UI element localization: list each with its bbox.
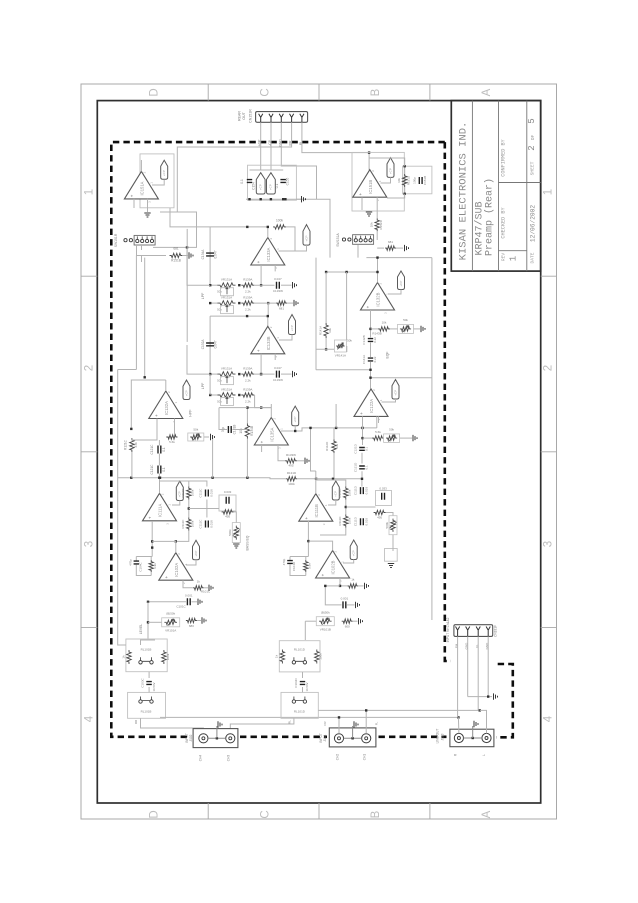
ground bbox=[414, 328, 421, 330]
wire bbox=[362, 416, 364, 445]
op-amp IC111A bbox=[143, 493, 177, 525]
wire bbox=[365, 710, 367, 733]
wire bbox=[148, 672, 150, 678]
svg-text:10-50V: 10-50V bbox=[305, 682, 309, 691]
svg-text:CH3: CH3 bbox=[226, 755, 230, 762]
svg-text:R112D: R112D bbox=[325, 441, 329, 451]
wire bbox=[279, 335, 292, 341]
resistor R111D 100k (b) bbox=[344, 515, 348, 528]
wire bbox=[467, 636, 469, 696]
svg-text:R121C: R121C bbox=[124, 439, 128, 450]
relay block B (right) bbox=[281, 692, 318, 718]
svg-text:B: B bbox=[370, 88, 382, 96]
resistor 600 bbox=[342, 619, 353, 623]
resistor R111W 495 bbox=[374, 510, 386, 514]
svg-text:10-50V: 10-50V bbox=[152, 682, 156, 691]
svg-text:R134B: R134B bbox=[250, 426, 254, 436]
svg-text:C132A: C132A bbox=[201, 339, 205, 350]
wire bbox=[219, 408, 222, 430]
wire bbox=[118, 369, 137, 371]
svg-text:C141A: C141A bbox=[362, 355, 366, 364]
resistor 680 bbox=[186, 618, 197, 622]
svg-text:0.018: 0.018 bbox=[210, 489, 214, 497]
svg-text:INPUT for Ch1&2: INPUT for Ch1&2 bbox=[446, 617, 450, 642]
wire bbox=[285, 227, 295, 251]
ground bbox=[396, 247, 403, 249]
svg-text:C103C: C103C bbox=[141, 678, 145, 688]
capacitor C111C 0.018 (a) bbox=[206, 490, 209, 497]
wire bbox=[186, 560, 196, 565]
svg-text:VR101A: VR101A bbox=[165, 629, 176, 633]
wire bbox=[131, 452, 133, 478]
capacitor C142B 0.22 bbox=[368, 339, 373, 342]
svg-text:1: 1 bbox=[543, 189, 555, 195]
wire bbox=[187, 345, 210, 374]
svg-text:+: + bbox=[321, 573, 326, 576]
svg-text:470p: 470p bbox=[128, 559, 132, 566]
jack J101 pin FL bbox=[362, 734, 371, 743]
wire bbox=[328, 500, 336, 505]
svg-text:C: C bbox=[259, 810, 271, 818]
wire bbox=[160, 481, 189, 487]
svg-text:DATE: DATE bbox=[530, 252, 536, 263]
op-amp IC133A bbox=[251, 238, 285, 270]
svg-text:A: A bbox=[481, 88, 493, 96]
trimmer VR141A 50k bbox=[325, 338, 327, 349]
wire bbox=[141, 640, 156, 645]
svg-text:50k: 50k bbox=[193, 428, 198, 432]
wire bbox=[315, 258, 317, 370]
capacitor C155 (0.1) bbox=[280, 180, 286, 183]
resistor R139 2.2k bbox=[241, 393, 254, 397]
svg-text:0.018: 0.018 bbox=[210, 520, 214, 528]
svg-text:IC151A: IC151A bbox=[139, 181, 144, 195]
svg-text:0.001: 0.001 bbox=[185, 594, 193, 598]
svg-text:IC111A: IC111A bbox=[158, 504, 163, 518]
jack J183 R bbox=[454, 733, 463, 742]
svg-text:50k: 50k bbox=[217, 400, 222, 404]
svg-text:C111C: C111C bbox=[198, 519, 202, 529]
svg-text:33k: 33k bbox=[134, 442, 138, 448]
svg-text:+CP: +CP bbox=[269, 184, 273, 190]
capacitor C133B bbox=[289, 315, 296, 335]
svg-text:EQF: EQF bbox=[386, 352, 390, 359]
wire bbox=[281, 122, 316, 199]
wire bbox=[281, 428, 302, 431]
svg-text:LPF: LPF bbox=[201, 292, 205, 299]
wire bbox=[346, 272, 348, 340]
wire bbox=[170, 208, 247, 227]
svg-text:+: + bbox=[366, 305, 371, 308]
svg-text:0.1: 0.1 bbox=[162, 467, 166, 472]
op-amp IC151A bbox=[140, 154, 174, 208]
svg-text:R143B: R143B bbox=[372, 332, 381, 336]
svg-text:R151B: R151B bbox=[171, 259, 181, 263]
capacitor C153B bbox=[387, 158, 394, 178]
svg-text:D: D bbox=[149, 810, 161, 818]
svg-text:0.047: 0.047 bbox=[274, 366, 282, 370]
pin 3 bbox=[279, 114, 283, 123]
wire bbox=[147, 199, 149, 212]
resistor 681 bbox=[377, 247, 384, 249]
svg-text:150k: 150k bbox=[347, 517, 351, 524]
trim box bbox=[385, 549, 398, 562]
op-amp IC132B bbox=[361, 283, 395, 315]
svg-text:KISAN ELECTRONICS IND.: KISAN ELECTRONICS IND. bbox=[458, 122, 470, 261]
wire bbox=[151, 521, 153, 557]
svg-text:R139A: R139A bbox=[243, 296, 252, 300]
resistor R139 2.2k bbox=[241, 283, 254, 287]
wire bbox=[316, 480, 346, 487]
svg-text:L: L bbox=[482, 754, 486, 756]
svg-text:100k: 100k bbox=[190, 520, 194, 527]
wire bus to line out bbox=[160, 716, 458, 718]
relay RL101B contacts bbox=[139, 697, 153, 704]
svg-text:0.047: 0.047 bbox=[213, 250, 217, 258]
resistor R112D 33k bbox=[332, 439, 336, 453]
svg-text:+CP: +CP bbox=[184, 390, 188, 396]
capacitor C132A cp bbox=[183, 380, 190, 400]
svg-text:33k: 33k bbox=[335, 443, 339, 448]
svg-text:+: + bbox=[359, 412, 364, 415]
wire bbox=[250, 169, 284, 171]
svg-text:100k: 100k bbox=[166, 653, 170, 660]
svg-text:C104D: C104D bbox=[292, 561, 296, 571]
switch SW151R bbox=[124, 235, 155, 245]
capacitor C111A cp bbox=[176, 481, 183, 501]
title block bbox=[451, 101, 540, 272]
svg-text:2.2k: 2.2k bbox=[245, 400, 251, 404]
pin 4 bbox=[486, 627, 490, 637]
svg-text:IC102B: IC102B bbox=[331, 560, 336, 574]
pin 1 bbox=[259, 114, 263, 123]
svg-text:VR131A: VR131A bbox=[221, 388, 232, 392]
capacitor C132A 0.047 bbox=[209, 316, 211, 374]
wire bbox=[183, 580, 193, 588]
resistor R102C 100k bbox=[162, 650, 166, 664]
wire bbox=[338, 717, 340, 733]
svg-text:CN181F: CN181F bbox=[494, 625, 498, 637]
wire bbox=[361, 453, 363, 464]
svg-text:IC132B: IC132B bbox=[376, 292, 381, 306]
svg-text:SHEET: SHEET bbox=[530, 161, 536, 175]
svg-text:J101: J101 bbox=[323, 734, 327, 741]
capacitor C102D 0.001 bbox=[325, 586, 341, 605]
capacitor C121D 0.1 (b) bbox=[359, 466, 365, 469]
resistor R121W bbox=[167, 435, 178, 439]
svg-text:1: 1 bbox=[84, 189, 96, 195]
svg-text:10k: 10k bbox=[397, 178, 401, 183]
svg-text:C142B: C142B bbox=[362, 335, 366, 344]
wire bbox=[311, 428, 316, 471]
svg-text:C121D: C121D bbox=[354, 462, 358, 472]
svg-text:R139A: R139A bbox=[243, 278, 252, 282]
wire bbox=[246, 198, 302, 200]
svg-text:100k: 100k bbox=[190, 489, 194, 496]
resistor R111D 100k (a) bbox=[344, 487, 348, 500]
svg-text:+CP: +CP bbox=[290, 325, 294, 331]
wire bbox=[487, 636, 489, 696]
svg-text:681: 681 bbox=[388, 240, 393, 244]
trimmer VR131 50k bbox=[210, 373, 218, 375]
border frame bbox=[81, 84, 557, 819]
wire bbox=[279, 245, 307, 251]
svg-text:2: 2 bbox=[84, 365, 96, 371]
svg-text:0.1: 0.1 bbox=[240, 179, 244, 184]
svg-text:0.22: 0.22 bbox=[373, 337, 377, 343]
svg-text:495: 495 bbox=[377, 516, 382, 520]
relay RL101B bbox=[139, 657, 153, 664]
svg-text:LPF: LPF bbox=[201, 382, 205, 389]
svg-text:R151D: R151D bbox=[406, 175, 410, 185]
wire bbox=[131, 419, 157, 441]
svg-text:VR141A: VR141A bbox=[335, 354, 346, 358]
wire bbox=[141, 718, 204, 733]
wire bbox=[159, 478, 161, 494]
svg-text:50k: 50k bbox=[217, 379, 222, 383]
ground bbox=[183, 255, 188, 257]
svg-text:RL101D: RL101D bbox=[294, 710, 306, 714]
svg-text:R152D: R152D bbox=[379, 219, 383, 229]
svg-text:3.9k: 3.9k bbox=[307, 563, 311, 569]
trimmer VR121B 50k bbox=[383, 437, 385, 439]
wire bbox=[274, 265, 276, 271]
svg-text:CONFIRMED BY: CONFIRMED BY bbox=[501, 138, 507, 176]
wire bbox=[140, 160, 142, 171]
wire bbox=[370, 310, 372, 338]
capacitor C121C 0.1 (a) bbox=[158, 446, 161, 454]
svg-text:C111D: C111D bbox=[354, 516, 358, 526]
wire bbox=[153, 212, 197, 247]
jack J102 pin R bbox=[199, 734, 208, 743]
wire bbox=[270, 122, 272, 170]
svg-text:IC122A: IC122A bbox=[369, 399, 374, 413]
connector J101 (INPUT) bbox=[329, 728, 376, 747]
wire bus to line out L bbox=[318, 709, 478, 711]
svg-text:12/06/2002: 12/06/2002 bbox=[530, 205, 537, 242]
svg-text:CH1: CH1 bbox=[363, 754, 367, 761]
ground bbox=[353, 620, 358, 622]
wire bbox=[247, 408, 271, 424]
capacitor C121D 0.1 (a) bbox=[359, 448, 365, 451]
relay block A (left) bbox=[126, 639, 167, 672]
ground bbox=[144, 213, 150, 217]
svg-text:5.6k: 5.6k bbox=[375, 430, 381, 434]
svg-text:+CP: +CP bbox=[388, 168, 392, 174]
trimmer VR121A bbox=[188, 433, 204, 441]
wire bbox=[152, 541, 176, 552]
trimmer VR131 50k bbox=[210, 394, 218, 396]
svg-text:IC133A: IC133A bbox=[266, 247, 271, 261]
svg-text:C154: C154 bbox=[252, 182, 256, 190]
trimmer VR111B 500k bbox=[386, 513, 393, 516]
capacitor C151B 100p bbox=[419, 177, 422, 184]
svg-text:+: + bbox=[256, 349, 261, 352]
wire bbox=[261, 445, 263, 452]
wire bbox=[340, 578, 347, 586]
resistor R102D 100k bbox=[315, 650, 319, 664]
svg-text:IC135A: IC135A bbox=[269, 427, 274, 441]
wire bbox=[464, 737, 483, 739]
svg-text:J183: J183 bbox=[441, 733, 445, 740]
svg-text:HPF: HPF bbox=[189, 409, 193, 417]
svg-text:IC111B: IC111B bbox=[314, 504, 319, 518]
ground bbox=[204, 436, 209, 438]
wire bbox=[457, 717, 460, 733]
svg-text:C101C: C101C bbox=[176, 605, 186, 609]
svg-text:+: + bbox=[304, 517, 309, 520]
wire bbox=[260, 265, 262, 285]
pin 4 bbox=[290, 114, 294, 123]
resistor R152D 10k bbox=[375, 218, 379, 231]
wire bbox=[158, 440, 160, 446]
svg-text:C103D: C103D bbox=[294, 678, 298, 688]
svg-text:C151B: C151B bbox=[423, 176, 427, 185]
capacitor C111D 0.018 (a) bbox=[361, 487, 364, 494]
svg-text:+CP: +CP bbox=[399, 281, 403, 287]
svg-text:4: 4 bbox=[543, 715, 555, 722]
svg-text:150k: 150k bbox=[347, 489, 351, 496]
svg-text:1k: 1k bbox=[351, 578, 355, 582]
wire left bus bbox=[118, 370, 126, 646]
pin 5 bbox=[300, 114, 304, 123]
capacitor C121C 0.1 (b) bbox=[158, 466, 161, 474]
wire bbox=[333, 428, 335, 439]
trimmer VR151B 50k bbox=[398, 324, 414, 333]
svg-text:500k: 500k bbox=[228, 529, 232, 536]
svg-text:0.033: 0.033 bbox=[224, 490, 232, 494]
ground bbox=[233, 544, 239, 548]
svg-text:0.047: 0.047 bbox=[213, 340, 217, 348]
relay block B (left) bbox=[128, 692, 166, 718]
svg-text:+CP: +CP bbox=[194, 551, 198, 557]
svg-text:CHECKED BY: CHECKED BY bbox=[501, 207, 507, 239]
wire bbox=[246, 439, 248, 478]
wire bottom bus bbox=[118, 477, 259, 479]
svg-text:C: C bbox=[259, 88, 271, 96]
wire bbox=[131, 380, 166, 429]
svg-text:OF: OF bbox=[530, 135, 536, 141]
svg-text:+CP: +CP bbox=[352, 550, 356, 556]
trimmer VR131 50k bbox=[210, 302, 218, 304]
svg-text:RL101D: RL101D bbox=[294, 648, 306, 652]
svg-text:10k: 10k bbox=[239, 428, 243, 434]
wire bbox=[344, 737, 362, 739]
svg-text:100k: 100k bbox=[276, 219, 283, 223]
svg-text:+: + bbox=[129, 194, 134, 197]
resistor R115W 495 bbox=[222, 510, 234, 514]
svg-text:0.018: 0.018 bbox=[365, 487, 369, 495]
resistor R133W 495 / ground bbox=[278, 445, 285, 461]
capacitor 0.047 bbox=[260, 284, 262, 286]
resistor R143B 10k bbox=[378, 327, 390, 331]
relay RL101D contacts bbox=[292, 697, 306, 704]
ground bbox=[204, 587, 208, 589]
svg-text:+CP: +CP bbox=[259, 184, 263, 190]
svg-text:C111C: C111C bbox=[198, 488, 202, 498]
resistor R111C 100k (b) bbox=[187, 518, 191, 531]
svg-text:R139A: R139A bbox=[243, 367, 252, 371]
svg-text:50k: 50k bbox=[347, 339, 352, 343]
ground bbox=[216, 726, 218, 738]
svg-text:5.6k: 5.6k bbox=[169, 440, 175, 444]
svg-text:FL: FL bbox=[375, 721, 379, 725]
ground bbox=[352, 726, 354, 738]
svg-text:2.2k: 2.2k bbox=[245, 290, 251, 294]
connector J102 (INPUT) bbox=[193, 729, 238, 748]
wire bbox=[388, 290, 401, 295]
svg-text:+CP: +CP bbox=[293, 416, 297, 422]
svg-text:IC133B: IC133B bbox=[266, 336, 271, 350]
svg-text:0.047: 0.047 bbox=[274, 277, 282, 281]
wire bbox=[302, 672, 304, 678]
wire bbox=[152, 180, 164, 186]
svg-text:681: 681 bbox=[173, 247, 179, 251]
capacitor C142A cp bbox=[398, 271, 405, 290]
svg-text:3: 3 bbox=[543, 541, 555, 547]
wire bbox=[335, 404, 337, 428]
op-amp IC132A bbox=[149, 391, 183, 423]
jack J101 pin FR bbox=[334, 734, 343, 743]
wire bbox=[307, 521, 309, 557]
wire bbox=[260, 354, 262, 374]
wire bbox=[382, 399, 396, 402]
ground bbox=[472, 726, 474, 738]
capacitor C113D 0.033 bbox=[376, 491, 392, 506]
svg-text:10k: 10k bbox=[369, 222, 373, 227]
wire bbox=[346, 346, 348, 352]
wire bbox=[172, 501, 180, 506]
svg-text:1k: 1k bbox=[275, 654, 279, 658]
svg-text:2.2k: 2.2k bbox=[245, 379, 251, 383]
relay RL101D bbox=[292, 657, 306, 664]
svg-text:3.9k: 3.9k bbox=[153, 563, 157, 569]
switch SW151A bbox=[342, 235, 373, 245]
network R151D / C151B bbox=[403, 166, 432, 194]
wire bbox=[308, 541, 332, 550]
capacitor C104D 470p bbox=[290, 556, 308, 558]
wire bus bbox=[316, 478, 362, 480]
svg-text:+: + bbox=[259, 440, 264, 443]
capacitor C113 0.033 bbox=[219, 495, 236, 511]
svg-text:2.2k: 2.2k bbox=[245, 308, 251, 312]
svg-text:+CP: +CP bbox=[304, 236, 308, 242]
svg-text:R139A: R139A bbox=[243, 388, 252, 392]
svg-text:R111D: R111D bbox=[338, 488, 342, 498]
svg-text:VR131A: VR131A bbox=[221, 296, 232, 300]
wire bbox=[315, 471, 317, 494]
svg-text:RL101B: RL101B bbox=[141, 648, 152, 652]
svg-text:(B)50k: (B)50k bbox=[166, 612, 175, 616]
svg-text:C133W: C133W bbox=[273, 378, 283, 382]
ground bbox=[400, 437, 412, 439]
resistor R101D 1k bbox=[280, 650, 284, 664]
svg-text:470p: 470p bbox=[282, 558, 286, 565]
svg-text:IC151B: IC151B bbox=[368, 180, 373, 194]
svg-text:R111C: R111C bbox=[181, 519, 185, 529]
svg-text:0.1: 0.1 bbox=[364, 446, 368, 451]
svg-text:IC132A: IC132A bbox=[164, 401, 169, 415]
wire bbox=[326, 271, 377, 273]
svg-text:J102: J102 bbox=[189, 734, 193, 741]
connector J183 (LINE OUT) bbox=[450, 729, 494, 747]
svg-text:10k: 10k bbox=[328, 328, 332, 333]
resistor R131D link bbox=[258, 478, 285, 479]
trimmer VR101B (B)50k bbox=[316, 617, 334, 626]
wire bbox=[209, 374, 211, 395]
preamp boundary (dashed) bbox=[111, 142, 445, 737]
svg-text:BASS EQ: BASS EQ bbox=[245, 535, 249, 550]
